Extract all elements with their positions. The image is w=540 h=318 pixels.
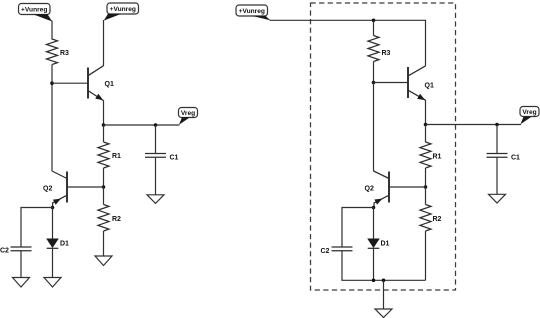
svg-text:Q2: Q2 [43, 186, 52, 193]
wire R3 to Q2 collector (Q1 base tap) [51, 65, 53, 172]
node R3 / Q1 base (right) [372, 81, 376, 85]
node C1 tap [154, 123, 158, 127]
power flag +Vunreg (right) [236, 5, 270, 20]
node Vreg rail / emitter / R1 [102, 123, 106, 127]
svg-text:R2: R2 [112, 216, 121, 223]
wire Vreg rail (right) [426, 124, 522, 126]
wire node to C2 (right) [342, 208, 374, 248]
ground (below C2) [13, 278, 30, 288]
wire Q1 base (right) [374, 82, 408, 84]
wire R1 to node [103, 168, 105, 187]
ground (below D1) [44, 278, 61, 288]
diode D1 (right) [367, 239, 389, 249]
wire C1 to ground (right) [496, 157, 498, 194]
node R1 / R2 / Q2 base [102, 185, 106, 189]
transistor Q2 (PNP) [43, 171, 67, 208]
wire node to C2 [21, 208, 53, 248]
svg-text:D1: D1 [381, 240, 390, 247]
svg-text:D1: D1 [60, 240, 69, 247]
wire node down to Q2 collector (right) [373, 83, 375, 172]
capacitor C2 [0, 247, 32, 255]
node R1 / R2 / Q2 base (right) [424, 185, 428, 189]
resistor R3 [47, 39, 70, 65]
power flag +Vunreg (left, feeds R3) [19, 4, 53, 22]
resistor R2 [98, 205, 121, 232]
node R3 / Q1 base junction [50, 81, 54, 85]
wire node to R1 (right) [425, 125, 427, 143]
wire C2 to ground [20, 251, 22, 278]
power flag +Vunreg (left, Q1 collector) [104, 3, 139, 21]
wire C2 to bottom rail (right) [342, 251, 426, 281]
svg-text:R3: R3 [382, 50, 391, 57]
ground (right circuit common) [375, 309, 392, 318]
svg-text:Vreg: Vreg [181, 110, 195, 117]
wire Q1 emitter to Vreg node (right) [425, 100, 427, 125]
svg-text:R2: R2 [433, 216, 442, 223]
resistor R1 (right) [420, 142, 442, 168]
svg-text:Vreg: Vreg [522, 109, 536, 116]
signal flag Vreg (right) [520, 107, 539, 125]
signal flag Vreg (left) [179, 108, 198, 125]
node C1 tap (right) [495, 123, 499, 127]
resistor R2 (right) [420, 205, 442, 232]
wire rail to R3 [373, 20, 375, 35]
svg-text:R1: R1 [112, 153, 121, 160]
svg-text:Q1: Q1 [105, 81, 114, 88]
wire R2 to ground [103, 231, 105, 256]
wire flag to R3 [51, 21, 53, 40]
dashed enclosure box [311, 3, 456, 290]
wire C1 tap [155, 125, 157, 154]
transistor Q1 (right, NPN) [408, 66, 434, 100]
wire R2 to bottom rail (right) [425, 231, 427, 280]
wire Q1 collector to +Vunreg flag [103, 20, 105, 66]
node D1 / bottom rail [372, 279, 376, 283]
node Vreg rail (right) [424, 123, 428, 127]
node Q2 emitter / C2 / D1 [51, 206, 55, 210]
svg-text:R3: R3 [60, 50, 69, 57]
wire rail to ground (right) [383, 280, 385, 309]
wire C1 tap (right) [496, 125, 498, 154]
wire +Vunreg top rail [270, 20, 426, 66]
capacitor C1 [145, 154, 179, 162]
transistor Q2 (right, PNP) [365, 171, 390, 208]
wire C1 to ground [155, 157, 157, 195]
ground (below R2) [95, 256, 112, 266]
wire node to D1 [52, 208, 54, 240]
wire node to R1 [103, 125, 105, 142]
svg-text:C2: C2 [0, 248, 9, 255]
svg-text:+Vunreg: +Vunreg [21, 6, 47, 13]
diode D1 [46, 239, 69, 249]
svg-text:Q1: Q1 [425, 83, 434, 90]
capacitor C1 (right) [487, 154, 521, 162]
svg-text:+Vunreg: +Vunreg [110, 6, 136, 13]
wire Q1 base [52, 82, 88, 84]
svg-text:+Vunreg: +Vunreg [239, 8, 265, 15]
wire Q2 base (right) [389, 186, 426, 188]
wire D1 to ground [52, 248, 54, 277]
wire R1 to node (right) [425, 168, 427, 187]
node top rail / R3 [372, 19, 376, 23]
node ground stem / bottom rail [382, 279, 386, 283]
wire node to R2 (right) [425, 187, 427, 205]
svg-text:Q2: Q2 [365, 186, 374, 193]
resistor R3 (right) [368, 36, 391, 62]
resistor R1 [98, 142, 121, 168]
wire R3 to node [373, 62, 375, 83]
wire Vreg rail [104, 124, 180, 126]
svg-text:R1: R1 [433, 154, 442, 161]
wire Q1 emitter to Vreg node [103, 100, 105, 125]
wire node to D1 (right) [373, 208, 375, 240]
svg-text:C1: C1 [170, 154, 179, 161]
transistor Q1 (NPN) [88, 66, 114, 101]
wire node to R2 [103, 187, 105, 205]
node Q2 emitter / C2 / D1 (right) [372, 206, 376, 210]
capacitor C2 (right) [321, 247, 353, 255]
wire D1 to bottom rail (right) [373, 248, 375, 280]
svg-text:C1: C1 [511, 154, 520, 161]
ground (below C1, right) [489, 194, 506, 203]
ground (below C1) [147, 195, 164, 204]
wire Q2 base [67, 186, 104, 188]
svg-text:C2: C2 [321, 248, 330, 255]
